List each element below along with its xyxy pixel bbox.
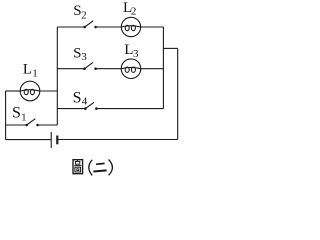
wire: top branch left segment — [57, 26, 84, 28]
label L1 — [23, 62, 38, 80]
switch S1 — [25, 119, 38, 127]
battery B1 — [51, 132, 57, 148]
wire: left vertical — [5, 91, 7, 140]
caption paren right — [109, 160, 113, 176]
svg-text:L: L — [23, 62, 32, 78]
caption: 圖(二) — [73, 160, 112, 176]
label L2 — [123, 0, 136, 17]
svg-text:3: 3 — [133, 48, 139, 60]
wire: bottom right segment — [57, 139, 177, 141]
wire: S1 branch right segment to mid bus — [38, 124, 58, 126]
caption glyph 二 — [93, 163, 106, 171]
wire: outer right bus — [177, 48, 179, 139]
label S3 — [73, 45, 87, 63]
wire: second branch between S3 and L3 — [96, 68, 122, 70]
wire: top branch between S2 and L2 — [96, 26, 122, 28]
wire: S1 branch left segment — [6, 124, 27, 126]
label S2 — [73, 3, 86, 22]
svg-text:4: 4 — [82, 96, 88, 108]
label S1 — [12, 105, 26, 124]
wire: top branch right segment — [141, 26, 164, 28]
label S4 — [73, 89, 88, 107]
svg-text:S: S — [12, 105, 21, 122]
wire: L1 branch right segment — [40, 90, 58, 92]
switch S2 — [83, 21, 97, 29]
wire: jog connector — [163, 47, 177, 49]
svg-text:1: 1 — [32, 67, 38, 79]
switch S4 — [84, 102, 98, 110]
wire: mid vertical bus — [56, 27, 58, 125]
switch S3 — [83, 62, 97, 70]
wire: second branch left segment — [57, 68, 84, 70]
label L3 — [124, 42, 139, 60]
svg-text:S: S — [73, 89, 82, 106]
wire: third branch right segment — [96, 108, 163, 110]
svg-text:3: 3 — [81, 51, 87, 63]
wire: inner right vertical — [162, 27, 164, 109]
wire: L1 branch left segment — [6, 90, 21, 92]
svg-text:S: S — [73, 45, 81, 61]
caption glyph 圖 — [73, 160, 83, 174]
lamp L3 — [121, 59, 141, 79]
svg-text:2: 2 — [131, 6, 137, 18]
wire: second branch right segment — [141, 68, 164, 70]
svg-text:2: 2 — [81, 9, 87, 21]
lamp L2 — [121, 17, 140, 36]
wire: third branch left segment — [57, 108, 85, 110]
wire: bottom left segment — [6, 139, 52, 141]
lamp L1 — [20, 81, 40, 101]
svg-text:1: 1 — [21, 113, 26, 124]
caption paren left — [89, 160, 92, 176]
